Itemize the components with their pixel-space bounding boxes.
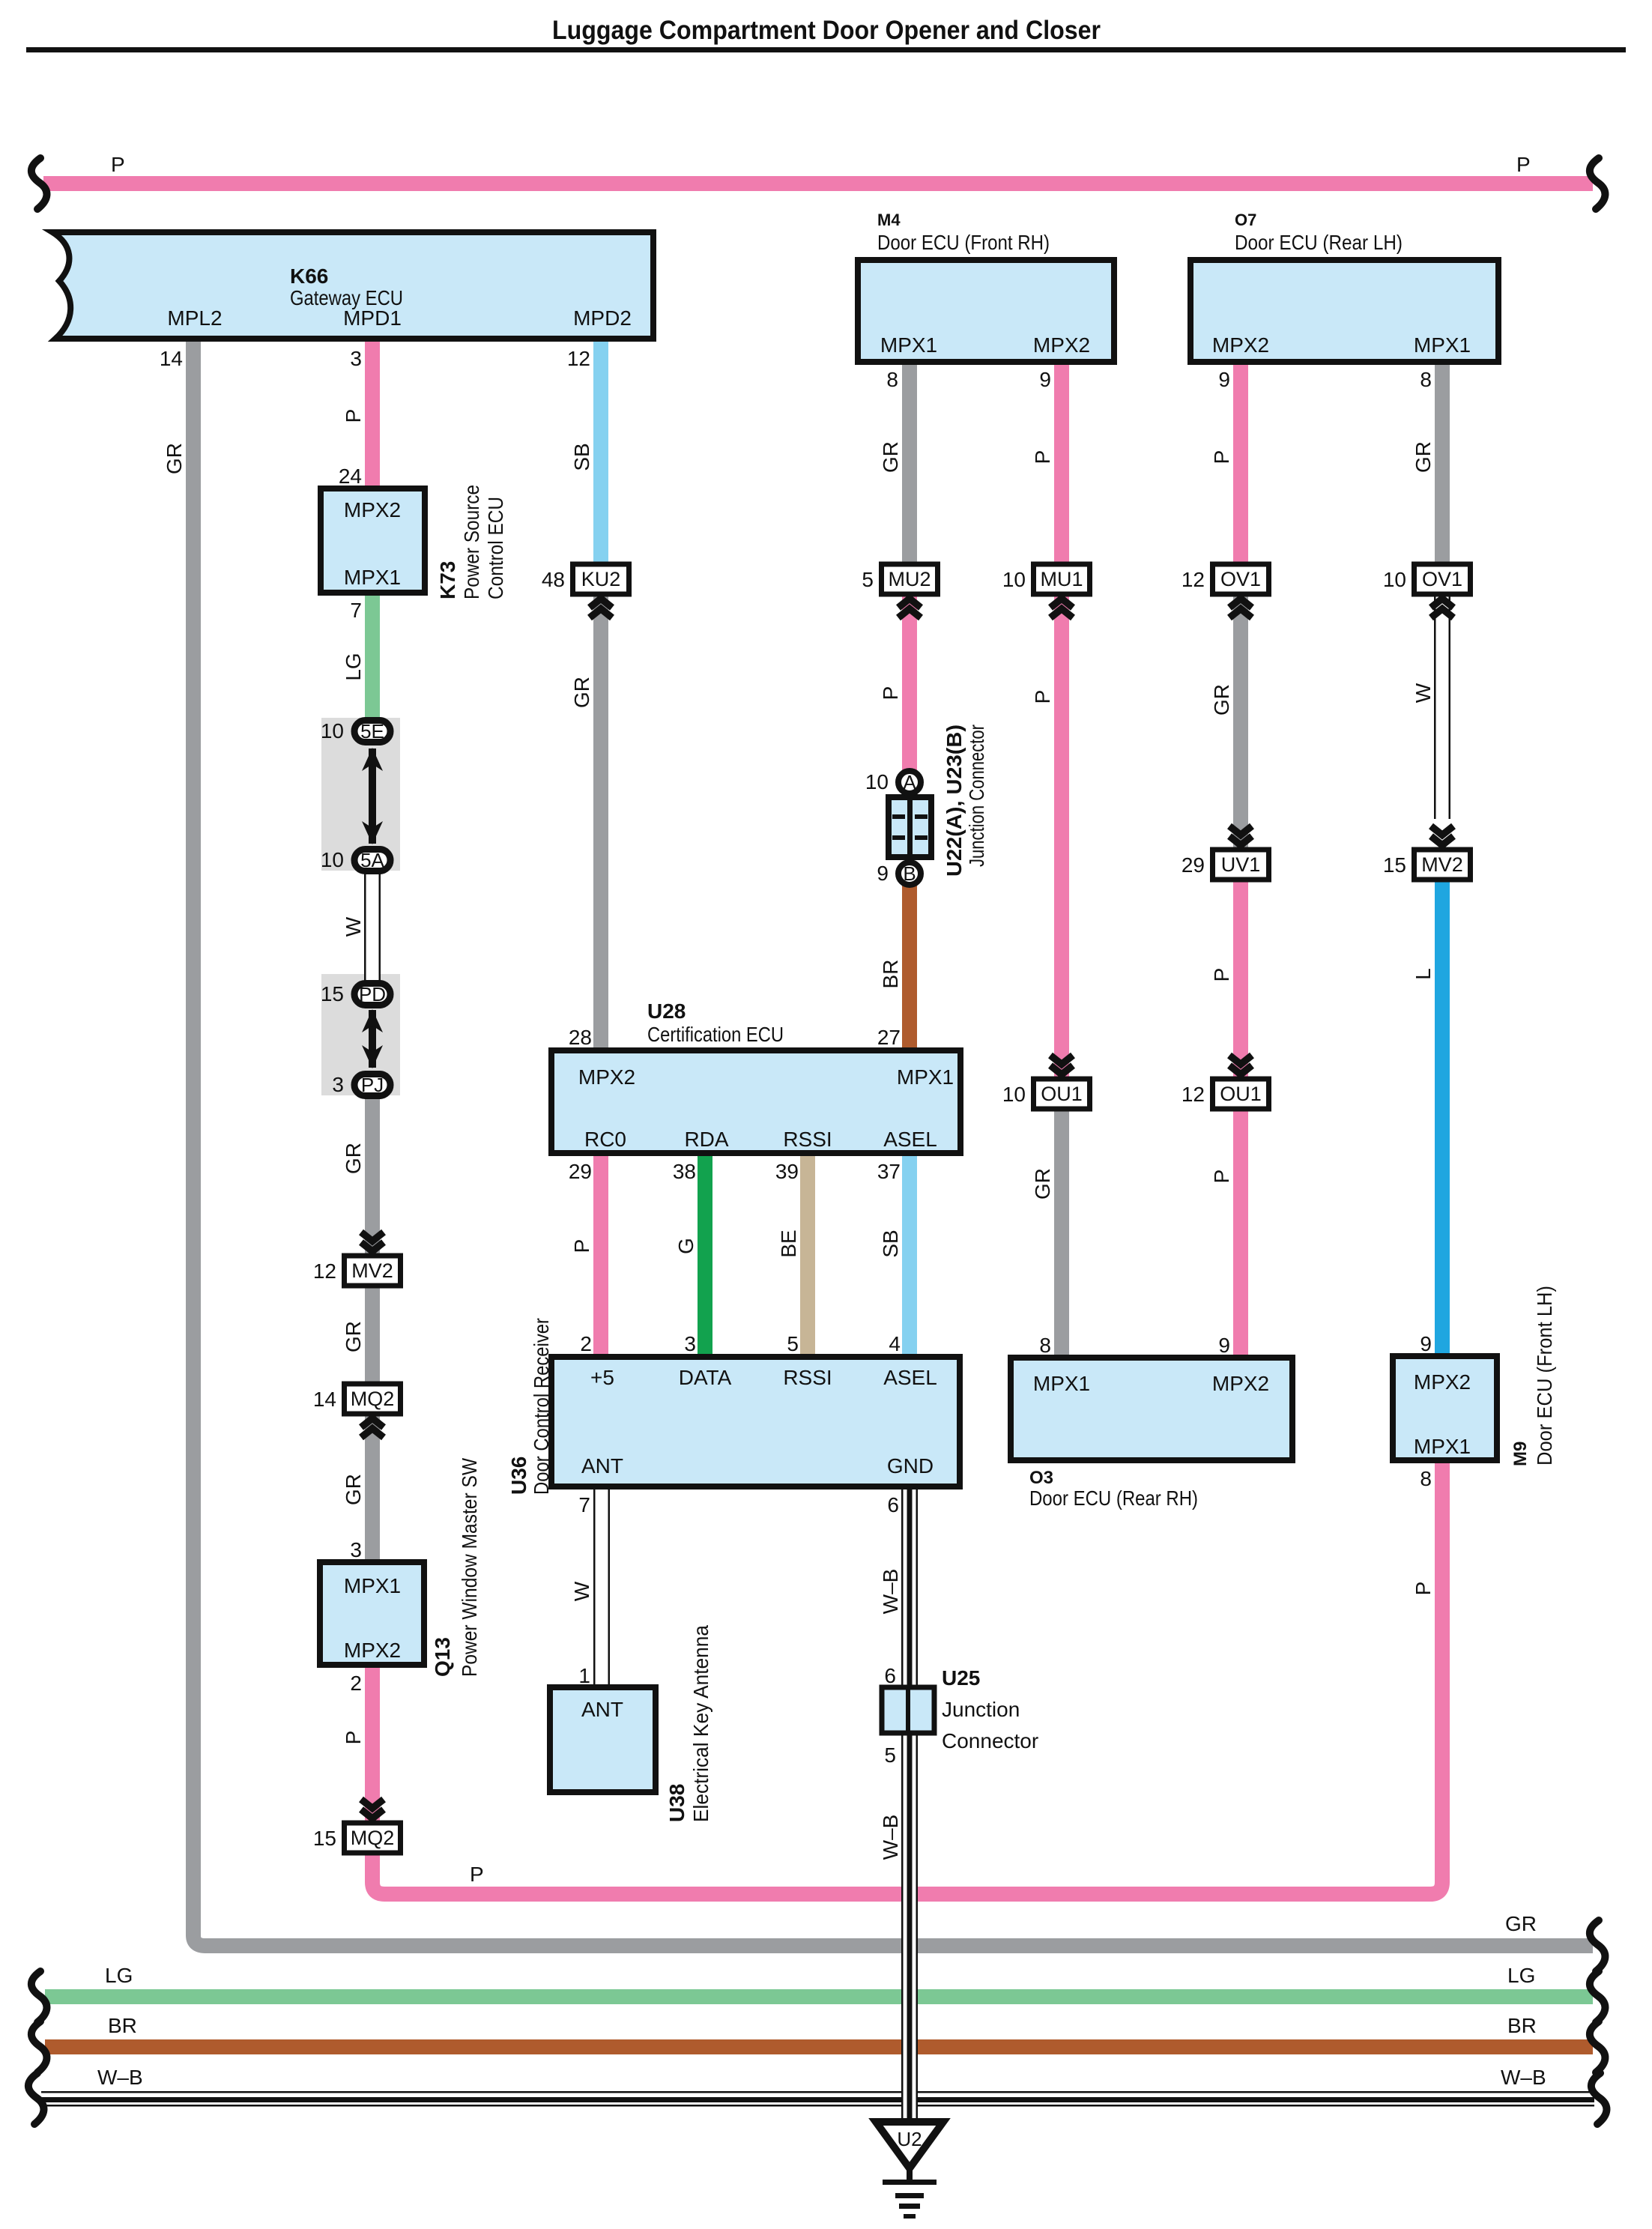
svg-text:27: 27	[877, 1026, 901, 1049]
svg-text:BR: BR	[1507, 2014, 1537, 2037]
svg-text:OU1: OU1	[1220, 1083, 1262, 1105]
svg-text:38: 38	[673, 1160, 696, 1183]
svg-text:GR: GR	[1412, 441, 1435, 473]
svg-text:LG: LG	[1507, 1964, 1535, 1987]
svg-text:OV1: OV1	[1220, 568, 1261, 590]
svg-text:3: 3	[350, 1538, 362, 1561]
svg-text:5: 5	[884, 1743, 896, 1767]
svg-text:37: 37	[877, 1160, 901, 1183]
svg-text:MPX2: MPX2	[578, 1065, 635, 1089]
svg-text:RSSI: RSSI	[783, 1128, 832, 1151]
svg-text:GR: GR	[1505, 1912, 1537, 1935]
svg-text:MU1: MU1	[1040, 568, 1083, 590]
svg-text:MPX1: MPX1	[897, 1065, 954, 1089]
svg-text:GR: GR	[1031, 1168, 1054, 1200]
svg-text:MPD1: MPD1	[343, 306, 402, 330]
svg-text:12: 12	[567, 347, 590, 370]
svg-text:P: P	[470, 1863, 484, 1886]
svg-text:MPX2: MPX2	[1033, 333, 1090, 357]
svg-text:GR: GR	[1210, 684, 1233, 716]
svg-text:6: 6	[887, 1493, 899, 1516]
svg-text:U38: U38	[665, 1784, 689, 1822]
svg-text:15: 15	[321, 982, 344, 1005]
svg-text:5A: 5A	[360, 849, 384, 871]
svg-text:10: 10	[1002, 568, 1026, 591]
svg-text:MPD2: MPD2	[573, 306, 632, 330]
svg-text:Junction: Junction	[942, 1698, 1020, 1721]
svg-text:3: 3	[332, 1073, 344, 1096]
svg-text:U36: U36	[507, 1457, 530, 1495]
svg-text:10: 10	[1383, 568, 1406, 591]
svg-text:GND: GND	[887, 1454, 934, 1478]
svg-text:PD: PD	[359, 983, 386, 1005]
svg-text:MPX1: MPX1	[344, 1574, 401, 1597]
svg-text:6: 6	[884, 1664, 896, 1687]
svg-text:MPX1: MPX1	[1414, 1435, 1471, 1458]
svg-text:9: 9	[1218, 368, 1230, 391]
svg-text:MV2: MV2	[351, 1259, 393, 1282]
svg-text:G: G	[674, 1238, 698, 1254]
svg-text:U28: U28	[647, 999, 686, 1023]
svg-text:29: 29	[1181, 853, 1205, 877]
svg-text:GR: GR	[163, 443, 186, 474]
svg-text:Door ECU (Rear RH): Door ECU (Rear RH)	[1029, 1486, 1198, 1510]
svg-text:Door ECU (Front RH): Door ECU (Front RH)	[877, 231, 1050, 254]
svg-text:MPX2: MPX2	[1414, 1370, 1471, 1394]
svg-text:Door ECU (Front LH): Door ECU (Front LH)	[1533, 1286, 1556, 1466]
svg-text:SB: SB	[879, 1230, 902, 1257]
svg-text:GR: GR	[342, 1143, 365, 1174]
svg-text:RSSI: RSSI	[783, 1366, 832, 1389]
svg-text:MV2: MV2	[1421, 853, 1463, 876]
svg-text:Door Control Receiver: Door Control Receiver	[530, 1318, 553, 1495]
svg-text:Door ECU (Rear LH): Door ECU (Rear LH)	[1235, 231, 1403, 254]
svg-text:ANT: ANT	[581, 1454, 623, 1478]
svg-text:Control ECU: Control ECU	[484, 497, 507, 599]
svg-text:3: 3	[684, 1332, 696, 1355]
svg-text:Power Window Master SW: Power Window Master SW	[458, 1458, 481, 1677]
svg-text:LG: LG	[342, 653, 365, 680]
svg-text:Power Source: Power Source	[460, 485, 483, 599]
svg-text:P: P	[342, 1731, 365, 1745]
svg-text:L: L	[1412, 968, 1435, 980]
svg-text:K73: K73	[436, 561, 459, 599]
svg-text:U25: U25	[942, 1666, 980, 1690]
svg-text:ASEL: ASEL	[883, 1366, 937, 1389]
svg-text:9: 9	[1039, 368, 1051, 391]
svg-text:W–B: W–B	[879, 1815, 902, 1860]
svg-text:W: W	[570, 1581, 593, 1601]
svg-text:ANT: ANT	[581, 1698, 623, 1721]
svg-text:48: 48	[542, 568, 565, 591]
svg-text:P: P	[1210, 1170, 1233, 1184]
svg-text:MPX2: MPX2	[344, 498, 401, 521]
svg-text:MPX1: MPX1	[1414, 333, 1471, 357]
svg-text:5: 5	[787, 1332, 799, 1355]
svg-text:10: 10	[865, 770, 889, 793]
svg-text:10: 10	[321, 719, 344, 743]
svg-text:7: 7	[578, 1493, 590, 1516]
svg-text:28: 28	[569, 1026, 592, 1049]
svg-text:P: P	[111, 153, 125, 176]
svg-text:MPL2: MPL2	[167, 306, 222, 330]
svg-text:Luggage Compartment Door Opene: Luggage Compartment Door Opener and Clos…	[552, 16, 1101, 45]
svg-text:MU2: MU2	[888, 568, 931, 590]
svg-text:OV1: OV1	[1422, 568, 1462, 590]
svg-text:10: 10	[1002, 1083, 1026, 1106]
svg-text:3: 3	[350, 347, 362, 370]
svg-text:BE: BE	[777, 1230, 800, 1257]
svg-text:14: 14	[313, 1388, 336, 1411]
svg-text:14: 14	[160, 347, 183, 370]
svg-text:P: P	[1516, 153, 1531, 176]
svg-text:U2: U2	[897, 2128, 922, 2150]
svg-text:P: P	[1210, 450, 1233, 465]
svg-text:P: P	[1210, 968, 1233, 982]
svg-text:U22(A), U23(B): U22(A), U23(B)	[943, 725, 966, 877]
svg-text:8: 8	[1420, 1467, 1432, 1490]
svg-text:15: 15	[1383, 853, 1406, 877]
svg-text:8: 8	[1420, 368, 1432, 391]
svg-text:B: B	[903, 862, 916, 885]
svg-text:9: 9	[877, 862, 889, 885]
svg-text:P: P	[342, 409, 365, 423]
svg-text:A: A	[903, 771, 916, 793]
svg-text:GR: GR	[570, 677, 593, 708]
svg-text:W–B: W–B	[1501, 2066, 1546, 2089]
svg-text:PJ: PJ	[361, 1074, 384, 1096]
svg-text:39: 39	[775, 1160, 799, 1183]
svg-text:5E: 5E	[360, 720, 384, 743]
svg-text:9: 9	[1420, 1332, 1432, 1355]
svg-text:12: 12	[1181, 1083, 1205, 1106]
svg-text:MQ2: MQ2	[351, 1388, 395, 1410]
svg-text:MPX1: MPX1	[344, 566, 401, 589]
svg-text:5: 5	[862, 568, 874, 591]
svg-text:UV1: UV1	[1221, 853, 1261, 876]
svg-text:M9: M9	[1510, 1442, 1531, 1466]
svg-text:GR: GR	[879, 441, 902, 473]
svg-text:2: 2	[350, 1672, 362, 1695]
svg-text:Certification ECU: Certification ECU	[647, 1023, 784, 1046]
svg-text:OU1: OU1	[1041, 1083, 1083, 1105]
svg-text:1: 1	[578, 1664, 590, 1687]
svg-text:Junction Connector: Junction Connector	[965, 725, 988, 867]
svg-text:O3: O3	[1029, 1468, 1053, 1488]
svg-text:8: 8	[886, 368, 898, 391]
svg-text:W–B: W–B	[97, 2066, 143, 2089]
svg-text:P: P	[570, 1239, 593, 1253]
svg-text:MPX1: MPX1	[1033, 1372, 1090, 1395]
svg-text:P: P	[879, 686, 902, 701]
svg-text:29: 29	[569, 1160, 592, 1183]
svg-text:2: 2	[580, 1332, 592, 1355]
svg-text:MPX2: MPX2	[1212, 1372, 1269, 1395]
svg-text:7: 7	[350, 599, 362, 622]
svg-text:24: 24	[339, 465, 362, 488]
svg-text:4: 4	[889, 1332, 901, 1355]
svg-text:SB: SB	[570, 443, 593, 471]
svg-text:RC0: RC0	[584, 1128, 626, 1151]
svg-text:12: 12	[313, 1259, 336, 1283]
svg-text:Q13: Q13	[431, 1637, 454, 1677]
svg-text:GR: GR	[342, 1321, 365, 1352]
svg-text:MPX1: MPX1	[880, 333, 937, 357]
svg-text:MPX2: MPX2	[344, 1639, 401, 1662]
svg-text:9: 9	[1218, 1334, 1230, 1357]
svg-text:P: P	[1412, 1582, 1435, 1596]
svg-text:W: W	[342, 916, 365, 937]
svg-text:BR: BR	[879, 960, 902, 989]
svg-text:M4: M4	[877, 211, 901, 229]
svg-text:LG: LG	[105, 1964, 133, 1987]
svg-text:+5: +5	[590, 1366, 614, 1389]
svg-text:O7: O7	[1235, 211, 1256, 229]
svg-text:10: 10	[321, 848, 344, 871]
svg-text:DATA: DATA	[679, 1366, 732, 1389]
svg-text:P: P	[1031, 450, 1054, 465]
svg-text:W: W	[1412, 683, 1435, 703]
svg-text:ASEL: ASEL	[883, 1128, 937, 1151]
svg-text:MQ2: MQ2	[351, 1827, 395, 1849]
svg-text:12: 12	[1181, 568, 1205, 591]
svg-text:Connector: Connector	[942, 1729, 1038, 1752]
svg-text:K66: K66	[290, 264, 328, 288]
svg-text:RDA: RDA	[684, 1128, 728, 1151]
svg-text:P: P	[1031, 690, 1054, 704]
svg-text:KU2: KU2	[581, 568, 621, 590]
svg-text:W–B: W–B	[879, 1569, 902, 1615]
svg-text:8: 8	[1039, 1334, 1051, 1357]
svg-text:15: 15	[313, 1827, 336, 1850]
svg-text:BR: BR	[108, 2014, 137, 2037]
svg-text:Electrical Key Antenna: Electrical Key Antenna	[689, 1625, 712, 1822]
svg-text:GR: GR	[342, 1474, 365, 1505]
svg-text:MPX2: MPX2	[1212, 333, 1269, 357]
